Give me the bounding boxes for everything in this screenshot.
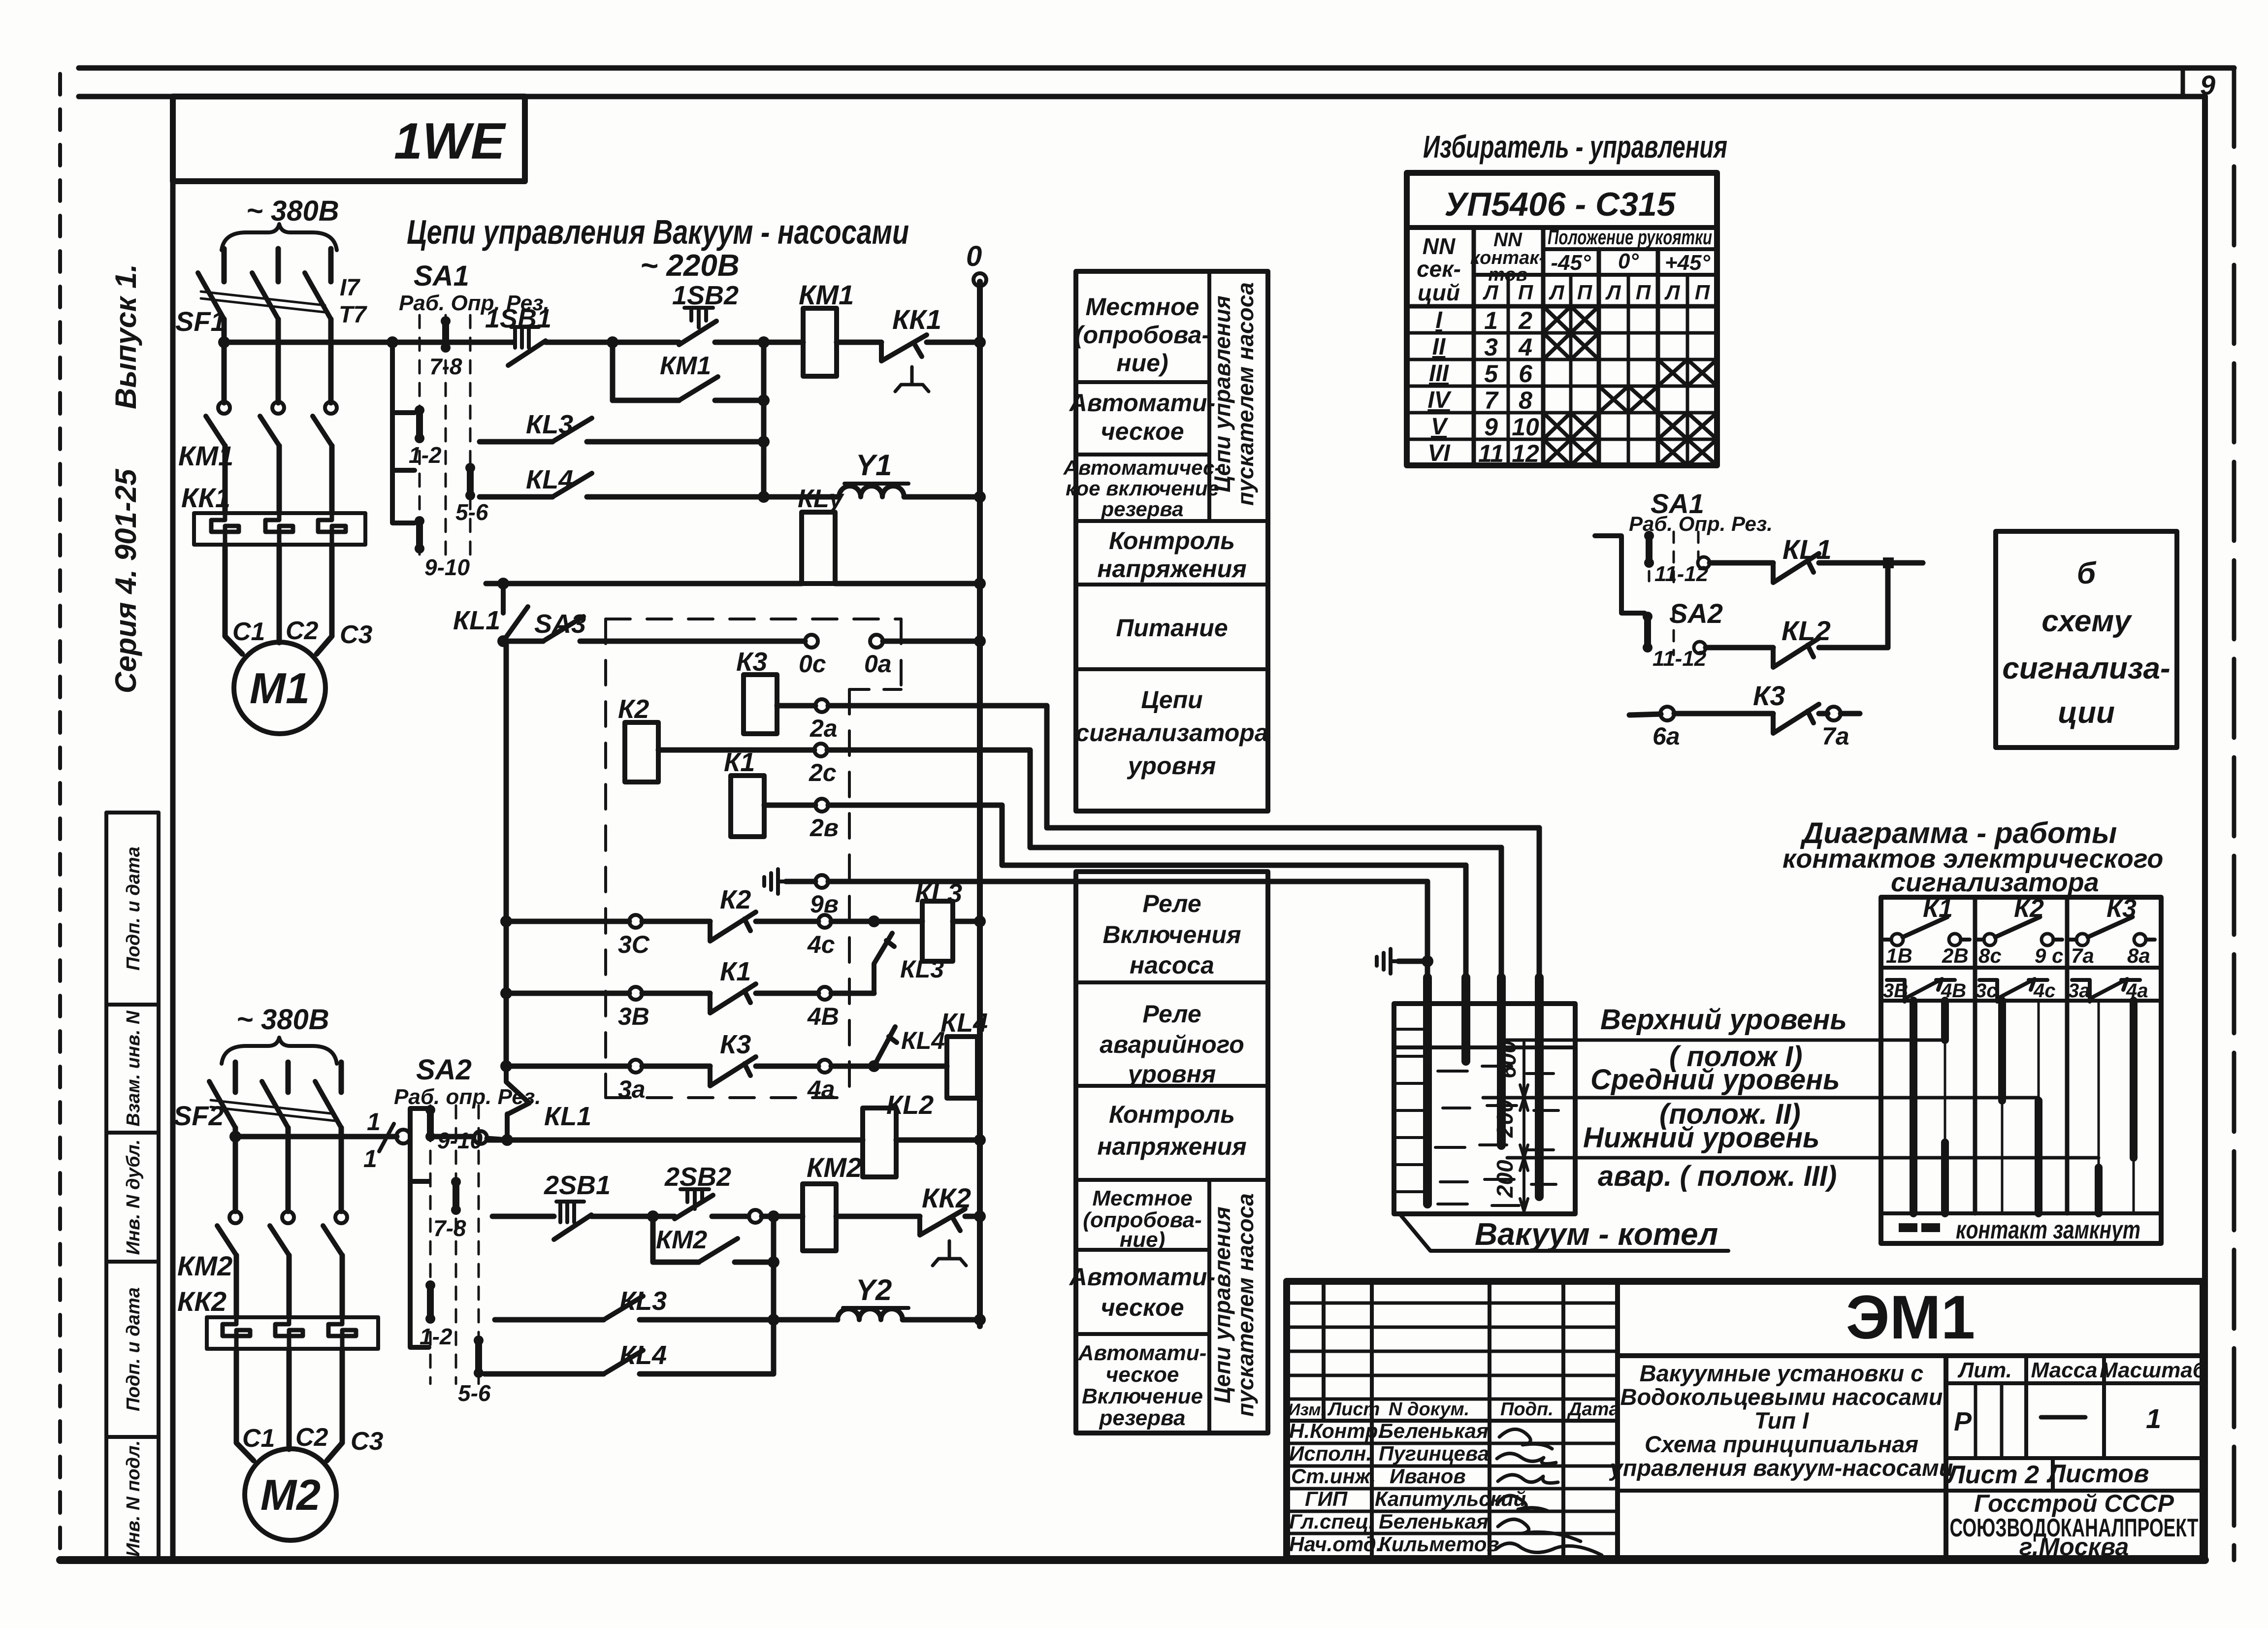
latch wire right M2	[735, 1260, 774, 1265]
svg-text:~ 380В: ~ 380В	[246, 195, 339, 227]
KK2 heater element 3	[328, 1317, 356, 1349]
breaker SF1 blade 2	[252, 273, 278, 319]
svg-text:7-8: 7-8	[429, 354, 462, 379]
svg-text:управления вакуум-насосами: управления вакуум-насосами	[1609, 1455, 1953, 1481]
SA1 contact 7-8	[442, 321, 449, 348]
wire phase2 to bus	[276, 319, 281, 403]
vertical bus 1551	[761, 342, 767, 497]
wire pole2 to heater	[277, 446, 282, 513]
svg-text:Автоматичес-: Автоматичес-	[1063, 456, 1222, 479]
svg-text:ции: ции	[2058, 696, 2115, 730]
tb massa value dash	[2041, 1415, 2085, 1420]
svg-text:2В: 2В	[1942, 944, 1969, 967]
svg-text:T7: T7	[339, 302, 367, 328]
svg-text:ние): ние)	[1116, 349, 1168, 377]
stamp box column	[106, 813, 159, 1560]
breaker SF1 blade 1	[198, 273, 224, 319]
svg-text:VI: VI	[1427, 440, 1451, 466]
junction dot rowF bus	[500, 915, 512, 927]
box1 divider row3	[1076, 519, 1268, 523]
svg-text:N докум.: N докум.	[1389, 1399, 1469, 1420]
SA1 contact 5-6	[467, 468, 474, 495]
svg-text:Взам. инв. N: Взам. инв. N	[123, 1010, 144, 1126]
svg-text:2в: 2в	[810, 814, 839, 842]
svg-text:3: 3	[1484, 333, 1498, 361]
row F wire left	[506, 919, 629, 924]
svg-text:авар. ( полож. III): авар. ( полож. III)	[1598, 1160, 1837, 1192]
box1 vertical divider	[1207, 271, 1211, 521]
svg-text:Контроль: Контроль	[1109, 527, 1235, 554]
svg-text:Y1: Y1	[856, 449, 892, 482]
coil KL2	[863, 1108, 896, 1177]
junction dot rowJ right	[974, 1210, 986, 1222]
svg-text:11-12: 11-12	[1652, 647, 1707, 671]
svg-text:сигнализатора: сигнализатора	[1075, 719, 1268, 747]
coil KM1	[803, 308, 837, 376]
wire pole3 to heater M2	[340, 1255, 345, 1317]
row F wire mid2	[756, 919, 818, 924]
Y2 underline	[843, 1306, 908, 1310]
svg-text:SА2: SА2	[416, 1054, 472, 1086]
KM1 pole circle 3	[325, 402, 337, 414]
svg-text:Тип I: Тип I	[1754, 1407, 1809, 1434]
svg-text:Цепи: Цепи	[1141, 686, 1202, 714]
svg-text:уровня: уровня	[1127, 1060, 1216, 1088]
contact KL4 aux vertical	[874, 1027, 897, 1066]
legend icon	[1899, 1223, 1917, 1232]
tank water dashes	[1435, 1066, 1558, 1205]
row F wire right	[953, 919, 980, 924]
junction dot latch	[758, 394, 770, 406]
junction dot SA3	[497, 635, 509, 647]
junction dot latch M2	[768, 1256, 779, 1268]
svg-text:+45°: +45°	[1665, 251, 1711, 275]
svg-text:9: 9	[2200, 69, 2215, 100]
ground symbol tank	[1377, 949, 1398, 974]
riser KL2 to KL1	[1885, 563, 1891, 648]
row G wire mid2	[756, 991, 818, 996]
svg-text:ческое: ческое	[1101, 1294, 1184, 1321]
SA2 dashed column 3	[478, 1106, 480, 1384]
svg-text:КL1: КL1	[544, 1102, 591, 1131]
wire 2c run	[827, 750, 1501, 847]
box2 divider row1	[1076, 980, 1268, 984]
wire rowA seg4	[837, 340, 881, 345]
svg-text:Вакуумные установки с: Вакуумные установки с	[1640, 1360, 1924, 1386]
svg-text:С1: С1	[242, 1424, 275, 1453]
svg-text:Пугинцева: Пугинцева	[1379, 1442, 1489, 1465]
stamp divider 3	[106, 1260, 159, 1264]
svg-text:8а: 8а	[2127, 944, 2150, 967]
SA1 contact 1-2	[416, 410, 423, 438]
tb row2 signature	[1497, 1453, 1556, 1464]
svg-text:Автомати-: Автомати-	[1078, 1341, 1207, 1365]
node circle 3B	[629, 987, 642, 1000]
svg-text:П: П	[1577, 281, 1592, 304]
svg-text:напряжения: напряжения	[1097, 555, 1246, 583]
ground symbol 9v	[764, 869, 786, 894]
KM2 latch branch	[653, 1216, 699, 1262]
svg-text:NN: NN	[1423, 233, 1456, 259]
svg-text:схему: схему	[2041, 604, 2133, 638]
svg-text:ние): ние)	[1120, 1228, 1166, 1252]
table v line m45 split	[1569, 275, 1573, 465]
SA1 right dashed col3	[1697, 532, 1700, 566]
svg-text:г.Москва: г.Москва	[2019, 1533, 2129, 1561]
tb row6 signature	[1496, 1543, 1602, 1555]
contact KL3 rowC	[552, 418, 592, 442]
tb h desc bottom	[1618, 1489, 1946, 1493]
right bus terminal circle	[973, 273, 986, 286]
K1 bar2 black bottom	[1941, 1142, 1949, 1213]
svg-text:Схема принципиальная: Схема принципиальная	[1645, 1431, 1918, 1457]
svg-text:резерва: резерва	[1101, 497, 1183, 521]
table v line z45	[1656, 249, 1660, 465]
node circle 7a	[1827, 707, 1841, 720]
svg-text:уровня: уровня	[1127, 752, 1216, 780]
svg-text:1-2: 1-2	[409, 442, 442, 468]
X marks row V right	[1658, 413, 1717, 439]
contact 1SB2	[679, 321, 716, 345]
K3 row tail	[1841, 711, 1860, 717]
KM1 pole blade 1	[206, 416, 225, 446]
tb h blank rows	[1287, 1303, 1618, 1399]
svg-text:Лист 2: Лист 2	[1945, 1461, 2039, 1489]
svg-text:КК1: КК1	[181, 482, 230, 513]
row J wire seg6	[836, 1214, 920, 1219]
svg-text:4с: 4с	[807, 931, 835, 958]
wire SA1 to KL1	[1710, 560, 1773, 566]
row J wire seg3	[653, 1214, 675, 1219]
row K wire right	[903, 1317, 980, 1323]
svg-text:Включение: Включение	[1082, 1384, 1203, 1408]
electrode 1	[1425, 881, 1430, 977]
svg-text:4: 4	[1518, 333, 1532, 361]
junction dot right sch	[1883, 557, 1894, 568]
KM1 pole blade 2	[260, 416, 279, 446]
K3 contact symbol	[2076, 934, 2088, 945]
tb desc cell divider	[1944, 1356, 1948, 1559]
wire rowA seg2	[613, 340, 679, 345]
svg-text:2SВ1: 2SВ1	[544, 1171, 611, 1200]
box1 divider row2	[1076, 453, 1209, 456]
contact KL4 rowL	[604, 1350, 643, 1374]
svg-text:8с: 8с	[1978, 944, 2002, 967]
row C wire left	[480, 439, 552, 445]
contact KL1 break vertical	[506, 1066, 529, 1140]
node circle 0c	[805, 635, 818, 648]
node circle 3C	[629, 915, 642, 928]
contact 1SB1	[508, 341, 546, 365]
svg-text:9: 9	[1484, 413, 1498, 441]
svg-text:Реле: Реле	[1142, 1000, 1201, 1028]
junction dot rowJ latch	[647, 1210, 659, 1222]
svg-text:КL1: КL1	[453, 606, 500, 635]
svg-text:I: I	[1435, 307, 1443, 333]
svg-text:-45°: -45°	[1551, 251, 1591, 275]
KM2 pole circle 2	[282, 1211, 294, 1223]
svg-text:ческое: ческое	[1101, 418, 1184, 445]
svg-text:3В: 3В	[1883, 980, 1908, 1002]
row F wire mid3	[831, 919, 922, 924]
table h row3	[1407, 385, 1717, 388]
svg-text:пускателем насоса: пускателем насоса	[1232, 1193, 1258, 1417]
M2 wire phase3	[339, 1128, 344, 1211]
K1 lower contact	[1887, 979, 1955, 1002]
table h line LP	[1474, 273, 1717, 277]
KK1 heater element 1	[211, 513, 239, 545]
tb lit header band	[1946, 1381, 2203, 1385]
wire rowA seg3	[715, 340, 803, 345]
junction dot rowA right	[974, 336, 986, 348]
KM2 pole circle 1	[229, 1211, 241, 1223]
row K wire left	[495, 1317, 604, 1323]
node circle 2a	[815, 699, 828, 712]
tb h header bottom	[1287, 1419, 1618, 1423]
electrode 2	[1463, 865, 1469, 977]
svg-text:SА2: SА2	[1669, 598, 1723, 629]
coil KLu	[802, 512, 835, 584]
KM1 pole blade 3	[313, 416, 332, 446]
svg-text:0: 0	[966, 240, 982, 272]
svg-text:б: б	[2077, 556, 2097, 590]
tb v line podp	[1488, 1281, 1491, 1559]
contact KL2 right	[1773, 638, 1819, 667]
svg-text:Гл.спец.: Гл.спец.	[1289, 1510, 1374, 1533]
wire 9v lead	[786, 879, 815, 884]
svg-text:Местное: Местное	[1092, 1186, 1192, 1210]
sheet top border line outer	[79, 65, 2234, 71]
row K wire mid	[640, 1317, 838, 1323]
contact K2 NC	[710, 912, 756, 941]
button 2SB1	[556, 1202, 584, 1222]
row C wire right	[587, 439, 764, 445]
wire KL1 to node	[1819, 560, 1923, 566]
tank body	[1394, 1004, 1575, 1214]
table v line col2	[1541, 228, 1546, 465]
junction dot rowG bus	[500, 987, 512, 999]
svg-text:Лит.: Лит.	[1957, 1358, 2012, 1382]
svg-text:Госстрой СССР: Госстрой СССР	[1974, 1490, 2174, 1517]
X marks row I	[1543, 306, 1599, 333]
table v line contacts split	[1507, 275, 1510, 465]
svg-text:4с: 4с	[2033, 980, 2056, 1002]
diagram band bottom	[1881, 999, 2161, 1003]
table v line p45 split	[1686, 275, 1689, 465]
contact 2SB2	[675, 1195, 713, 1219]
svg-text:1В: 1В	[1886, 944, 1912, 967]
K3 bar2 thin	[2133, 1001, 2135, 1213]
tb v massa-masshtab	[2102, 1356, 2106, 1458]
SA2 contact 7-8	[453, 1182, 459, 1210]
svg-text:Дата: Дата	[1567, 1399, 1620, 1420]
wire 9v run	[828, 879, 1427, 884]
wire heater2 to M2	[287, 1349, 292, 1449]
KM2 pole circle 3	[335, 1211, 347, 1223]
svg-text:Беленькая: Беленькая	[1379, 1419, 1489, 1442]
svg-text:Цепи управления: Цепи управления	[1209, 1206, 1235, 1403]
svg-text:Нижний уровень: Нижний уровень	[1583, 1122, 1819, 1154]
svg-text:П: П	[1695, 281, 1710, 304]
svg-text:Y2: Y2	[856, 1273, 892, 1306]
brace M1	[222, 224, 337, 250]
sheet left border (dashed)	[58, 74, 62, 1560]
svg-text:3а: 3а	[618, 1075, 646, 1103]
svg-text:Ст.инж.: Ст.инж.	[1291, 1465, 1376, 1488]
inductor Y2	[838, 1309, 903, 1320]
svg-text:К1: К1	[724, 748, 755, 777]
svg-text:Лист: Лист	[1327, 1399, 1380, 1420]
coil K3	[744, 675, 777, 734]
tb row1 signature	[1499, 1429, 1552, 1449]
svg-text:П: П	[1636, 281, 1651, 304]
row E wire left	[486, 581, 802, 586]
svg-text:К3: К3	[720, 1030, 751, 1059]
dimension line	[1523, 1040, 1525, 1211]
row G wire mid1	[642, 991, 710, 996]
svg-text:КL3: КL3	[900, 955, 944, 983]
SA2 dashed column 1	[429, 1106, 432, 1384]
svg-text:200: 200	[1492, 1100, 1518, 1138]
svg-text:2а: 2а	[810, 715, 838, 742]
latch branch down	[610, 342, 616, 400]
svg-text:0а: 0а	[864, 650, 892, 678]
svg-text:К2: К2	[720, 885, 751, 914]
level line lower	[1507, 1156, 2099, 1160]
svg-text:6: 6	[1519, 360, 1533, 388]
latch wire left	[613, 398, 679, 403]
svg-text:6а: 6а	[1652, 722, 1680, 750]
svg-text:С2: С2	[286, 617, 319, 645]
contact K3 NC	[710, 1057, 756, 1086]
wire rowA seg1	[546, 340, 613, 345]
box1 divider row5	[1076, 667, 1268, 671]
contact KL3 rowK	[604, 1296, 643, 1320]
wire phase1 to bus	[222, 319, 227, 403]
svg-text:Средний уровень: Средний уровень	[1590, 1064, 1840, 1096]
right SA feed bracket	[1595, 536, 1645, 613]
breaker SF2 blade 1	[209, 1081, 235, 1128]
svg-text:SА3: SА3	[534, 609, 586, 639]
tb row4 signature	[1497, 1496, 1549, 1511]
box2 divider row3	[1076, 1178, 1268, 1182]
svg-text:резерва: резерва	[1099, 1406, 1185, 1430]
Y1 underline	[844, 482, 908, 486]
row I wire right	[896, 1138, 980, 1143]
svg-text:Иванов: Иванов	[1390, 1465, 1466, 1488]
box2 vertical divider	[1207, 1180, 1211, 1433]
row H wire right	[831, 1064, 947, 1069]
svg-text:1: 1	[363, 1145, 377, 1173]
svg-text:~ 380В: ~ 380В	[236, 1004, 329, 1036]
wire K2 to 2c	[658, 748, 814, 753]
inductor Y1	[839, 486, 904, 497]
right bus 0	[977, 282, 983, 1326]
electrode 3	[1499, 847, 1504, 977]
K3 bar2 black top	[2130, 1001, 2138, 1158]
svg-text:Выпуск 1.: Выпуск 1.	[109, 264, 142, 409]
table h row2	[1407, 358, 1717, 361]
selector table outer box	[1407, 173, 1717, 465]
X marks row VI left	[1543, 439, 1599, 465]
junction dot rowE right	[974, 578, 986, 589]
svg-text:сек-: сек-	[1417, 256, 1461, 282]
wire pole1 to heater M2	[234, 1255, 239, 1317]
row J wire seg2	[591, 1214, 653, 1219]
row G wire left	[506, 991, 629, 996]
phase stub 2	[276, 249, 281, 282]
table h line angles	[1543, 247, 1717, 251]
svg-text:Питание: Питание	[1116, 614, 1228, 642]
tb lit subcell 1	[1974, 1383, 1977, 1458]
K3 row wire mid	[1674, 711, 1773, 717]
svg-text:9 с: 9 с	[2035, 944, 2063, 967]
svg-text:9-10: 9-10	[424, 554, 470, 580]
coil KL3	[922, 901, 953, 961]
node circle after SA2	[474, 1131, 487, 1144]
svg-text:2с: 2с	[809, 759, 837, 786]
junction dot rowF right	[974, 915, 986, 927]
row F wire mid1	[642, 919, 710, 924]
svg-text:С3: С3	[340, 620, 373, 649]
junction dot rowD right	[974, 491, 986, 503]
stamp divider 4	[106, 1435, 159, 1439]
K2 bar1 black top	[1998, 1001, 2006, 1101]
svg-text:КLу: КLу	[798, 485, 845, 513]
wire 0a to bus	[883, 639, 980, 644]
svg-text:IV: IV	[1427, 387, 1452, 413]
dashed enclosure left	[604, 619, 607, 1098]
junction dot rowA bus1551	[758, 336, 770, 348]
svg-text:сигнализатора: сигнализатора	[1891, 868, 2099, 897]
KK1 heater element 2	[265, 513, 293, 545]
svg-text:КМ2: КМ2	[656, 1226, 707, 1254]
SA1 dashed column 2	[445, 315, 447, 559]
svg-text:8: 8	[1519, 387, 1532, 414]
junction dot rowF kl3up	[868, 915, 880, 927]
breaker SF1 blade 3	[305, 273, 331, 319]
box2 divider row5	[1076, 1332, 1209, 1336]
table v line m45	[1597, 249, 1601, 465]
node circle rowJ	[749, 1210, 762, 1223]
svg-text:Цепи управления: Цепи управления	[1209, 295, 1235, 492]
diagram col divider 2	[2065, 897, 2070, 1213]
tb row3 signature	[1498, 1475, 1558, 1483]
coil K1	[731, 776, 764, 837]
SA1 right dashed col1	[1648, 532, 1651, 581]
M2 phase stub 3	[339, 1062, 344, 1092]
wire phase3 to bus	[328, 319, 334, 403]
latch wire right	[715, 398, 764, 403]
dashed enclosure step horizontal	[849, 688, 901, 691]
junction dot rowC bus	[758, 436, 770, 448]
svg-text:0°: 0°	[1618, 249, 1639, 273]
stamp divider 1	[106, 1003, 159, 1007]
svg-text:1: 1	[2146, 1403, 2161, 1434]
wire heater1 to motor	[225, 545, 242, 654]
row J wire seg4	[712, 1214, 748, 1219]
svg-text:4а: 4а	[807, 1075, 835, 1103]
diagram legend top	[1881, 1211, 2161, 1215]
svg-text:Контроль: Контроль	[1109, 1101, 1235, 1128]
phase stub 3	[328, 249, 334, 282]
svg-text:Н.Контр.: Н.Контр.	[1289, 1419, 1384, 1442]
node circle SA2 out	[1694, 642, 1706, 653]
wire heater2 to motor	[277, 545, 282, 643]
svg-text:Верхний уровень: Верхний уровень	[1600, 1004, 1847, 1036]
svg-text:~ 220В: ~ 220В	[640, 249, 740, 283]
K2 bar2 black bottom	[2035, 1101, 2042, 1213]
